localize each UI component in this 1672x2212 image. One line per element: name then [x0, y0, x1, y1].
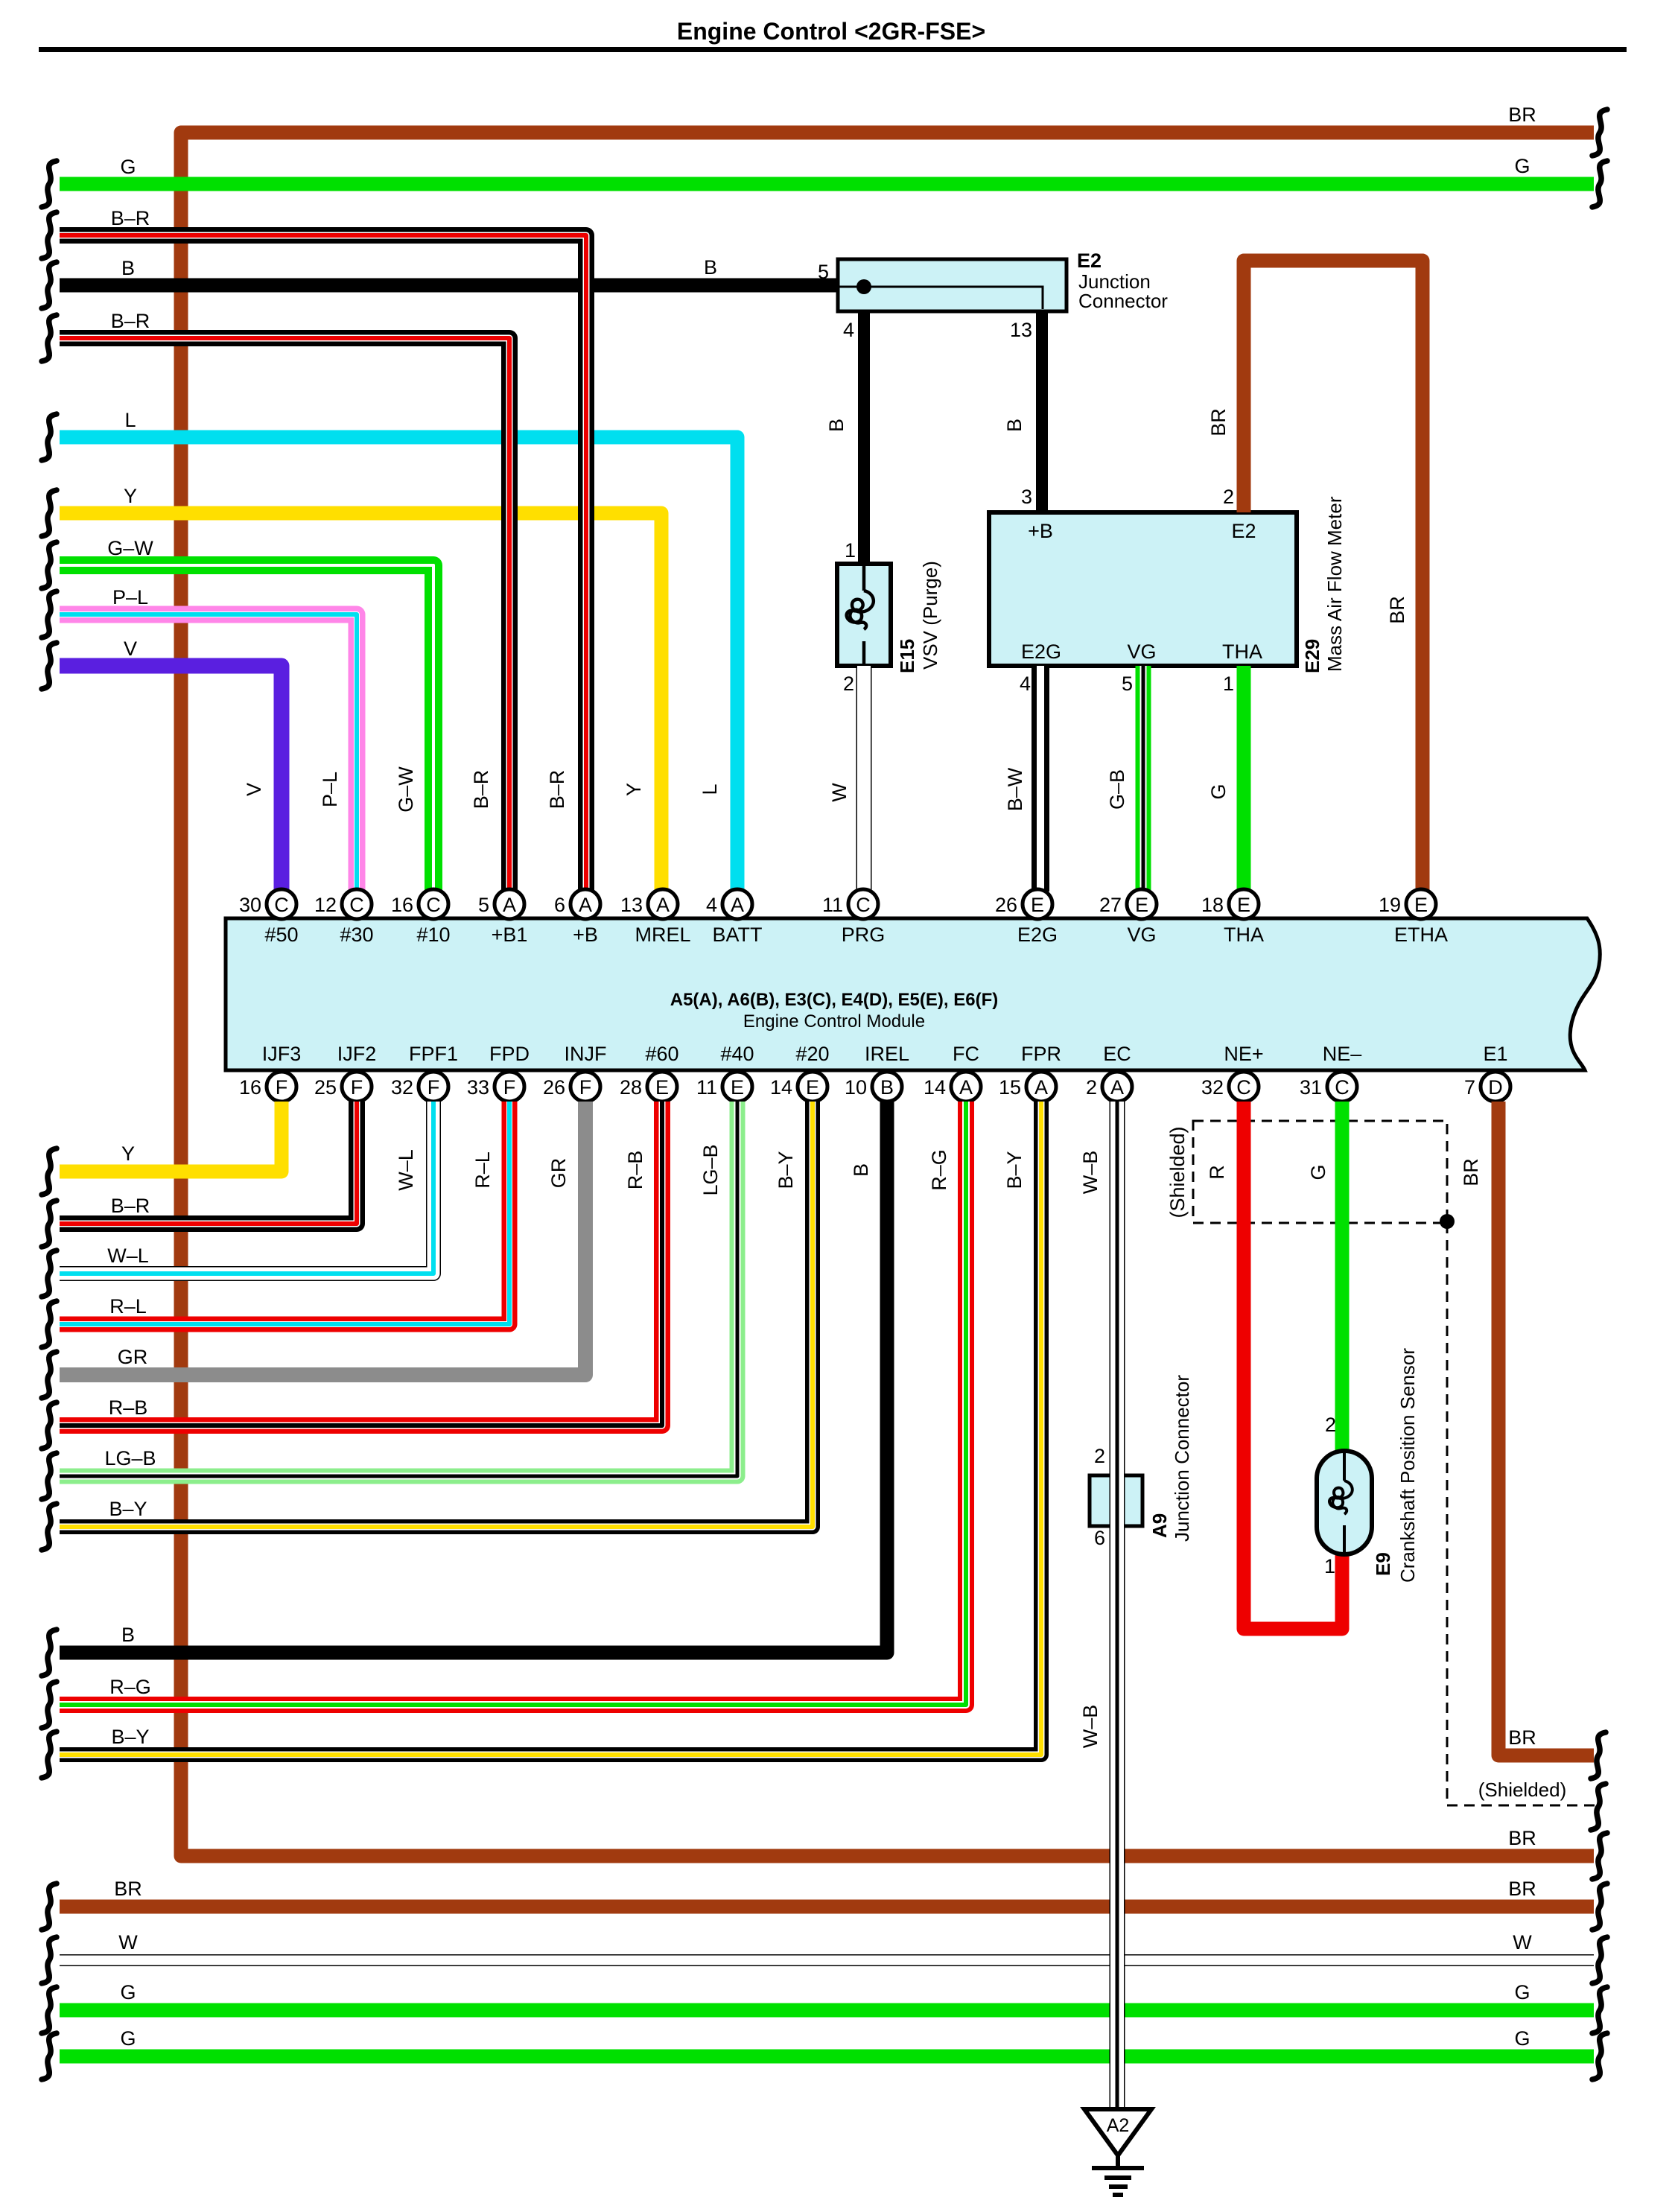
- connector squiggle P-L row: [42, 591, 57, 638]
- svg-text:#20: #20: [795, 1043, 829, 1065]
- svg-text:(Shielded): (Shielded): [1478, 1779, 1567, 1801]
- ECM top pin 27E VG: [1127, 889, 1157, 919]
- ECM bottom pin 14A FC: [951, 1072, 981, 1102]
- svg-text:+B1: +B1: [492, 924, 528, 946]
- svg-text:28: 28: [620, 1076, 642, 1099]
- connector squiggle B-R lower: [42, 1201, 57, 1247]
- wire Y to ECM MREL (13A): [60, 513, 661, 892]
- connector squiggle G left: [42, 161, 57, 207]
- svg-text:BR: BR: [1508, 1827, 1536, 1849]
- ECM bottom pin 2A EC: [1102, 1072, 1132, 1102]
- svg-text:4: 4: [1020, 673, 1031, 695]
- ECM bottom pin 28E #60: [647, 1072, 677, 1102]
- wire G-B from E29 VG pin5 to ECM VG (27E): [1136, 666, 1151, 892]
- connector squiggle Y lower: [42, 1148, 57, 1195]
- svg-text:5: 5: [818, 261, 829, 283]
- connector squiggle B-Y lower: [42, 1732, 57, 1778]
- svg-text:F: F: [503, 1076, 516, 1099]
- connector squiggle GR: [42, 1352, 57, 1398]
- connector squiggle G1 left: [42, 1987, 57, 2033]
- svg-text:13: 13: [1010, 319, 1032, 341]
- svg-text:THA: THA: [1222, 641, 1262, 663]
- svg-text:BR: BR: [1386, 596, 1408, 624]
- svg-text:Y: Y: [121, 1142, 135, 1165]
- svg-text:FPR: FPR: [1021, 1043, 1061, 1065]
- svg-text:B: B: [825, 419, 848, 432]
- svg-text:E2G: E2G: [1021, 641, 1061, 663]
- svg-text:31: 31: [1300, 1076, 1322, 1099]
- svg-text:L: L: [699, 784, 721, 795]
- svg-text:VSV (Purge): VSV (Purge): [919, 561, 941, 670]
- connector break squiggle BR top right: [1592, 109, 1607, 156]
- svg-text:B–R: B–R: [111, 1195, 150, 1217]
- svg-text:16: 16: [391, 894, 413, 916]
- engine control module ECM box: [226, 918, 1600, 1070]
- wire B-Y from ECM #20 (14E): [60, 1102, 813, 1527]
- svg-text:2: 2: [1086, 1076, 1097, 1099]
- svg-text:2: 2: [1223, 486, 1234, 508]
- svg-text:P–L: P–L: [112, 586, 148, 608]
- svg-text:BR: BR: [1460, 1158, 1482, 1186]
- svg-text:BR: BR: [1508, 104, 1536, 126]
- svg-text:C: C: [856, 894, 871, 916]
- svg-text:W–L: W–L: [395, 1149, 417, 1191]
- ECM bottom pin 31C NE–: [1327, 1072, 1357, 1102]
- svg-text:A2: A2: [1107, 2115, 1130, 2136]
- svg-text:D: D: [1488, 1076, 1503, 1099]
- svg-text:V: V: [124, 638, 137, 660]
- svg-text:B–Y: B–Y: [1003, 1151, 1026, 1189]
- svg-text:16: 16: [239, 1076, 261, 1099]
- svg-text:25: 25: [314, 1076, 337, 1099]
- svg-text:G: G: [120, 156, 136, 178]
- svg-text:Crankshaft Position Sensor: Crankshaft Position Sensor: [1396, 1348, 1419, 1583]
- wire B-Y from ECM FPR (15A): [60, 1102, 1041, 1755]
- ECM top pin 19E ETHA: [1406, 889, 1436, 919]
- svg-text:#40: #40: [720, 1043, 754, 1065]
- svg-text:A: A: [503, 894, 516, 916]
- connector squiggle G-W row: [42, 542, 57, 588]
- svg-text:B: B: [121, 257, 135, 279]
- svg-text:C: C: [349, 894, 364, 916]
- connector squiggle W left: [42, 1937, 57, 1983]
- svg-text:A: A: [579, 894, 592, 916]
- wire P-L to ECM #30 (12C): [60, 614, 357, 892]
- ECM top pin 18E THA: [1229, 889, 1259, 919]
- svg-text:14: 14: [924, 1076, 946, 1099]
- wire W-B over bottom rows: [1110, 1840, 1125, 2109]
- svg-text:3: 3: [1021, 486, 1032, 508]
- E15 coil symbol: [847, 566, 874, 664]
- wire Y from ECM IJF3 (16F): [60, 1102, 282, 1172]
- wire G from E29 THA pin1 to ECM THA (18E): [1237, 666, 1251, 892]
- svg-text:19: 19: [1379, 894, 1401, 916]
- svg-text:B: B: [121, 1624, 135, 1646]
- svg-text:15: 15: [999, 1076, 1021, 1099]
- svg-text:E9: E9: [1372, 1552, 1394, 1576]
- svg-text:2: 2: [1325, 1414, 1336, 1436]
- E9 coil symbol: [1329, 1453, 1352, 1552]
- ECM top pin 12C #30: [342, 889, 372, 919]
- connector squiggle B-R row2: [42, 315, 57, 361]
- junction dot shield corner: [1440, 1214, 1455, 1229]
- svg-text:Junction Connector: Junction Connector: [1171, 1375, 1193, 1542]
- wire B from E2 pin13 to E29 +B pin3: [1036, 311, 1048, 512]
- svg-text:E: E: [1031, 894, 1044, 916]
- svg-text:VG: VG: [1127, 641, 1156, 663]
- connector squiggle LG-B: [42, 1453, 57, 1499]
- svg-text:A9: A9: [1148, 1513, 1171, 1538]
- svg-text:32: 32: [391, 1076, 413, 1099]
- svg-text:14: 14: [770, 1076, 792, 1099]
- svg-text:27: 27: [1099, 894, 1122, 916]
- svg-text:G: G: [1514, 1981, 1530, 2003]
- svg-text:A: A: [1110, 1076, 1124, 1099]
- svg-text:W–L: W–L: [107, 1245, 149, 1267]
- wire GR from ECM INJF (26F): [60, 1102, 585, 1375]
- ECM top pin 13A MREL: [648, 889, 678, 919]
- svg-text:B–R: B–R: [111, 207, 150, 229]
- wire BR from E29 E2 pin2 over to ECM ETHA (19E): [1244, 261, 1423, 892]
- svg-text:A: A: [1034, 1076, 1048, 1099]
- svg-text:A: A: [959, 1076, 973, 1099]
- svg-text:1: 1: [845, 539, 856, 562]
- svg-text:11: 11: [822, 894, 843, 916]
- svg-text:FPD: FPD: [489, 1043, 530, 1065]
- svg-text:F: F: [427, 1076, 440, 1099]
- svg-text:R–L: R–L: [471, 1151, 494, 1189]
- svg-text:BR: BR: [1508, 1726, 1536, 1749]
- svg-text:BR: BR: [1508, 1878, 1536, 1900]
- junction connector A9 box: [1090, 1475, 1142, 1526]
- wire B-R to ECM +B (6A): [60, 235, 586, 892]
- wire G (top row): [60, 177, 1594, 191]
- ECM bottom pin 7D E1: [1481, 1072, 1510, 1102]
- connector squiggle R-G: [42, 1682, 57, 1728]
- ECM bottom pin 26F INJF: [570, 1072, 600, 1102]
- ECM top pin 5A +B1: [495, 889, 524, 919]
- connector squiggle E1 BR: [1591, 1732, 1606, 1779]
- ECM bottom pin 16F IJF3: [267, 1072, 296, 1102]
- connector squiggle B-Y: [42, 1504, 57, 1550]
- svg-text:1: 1: [1223, 673, 1234, 695]
- svg-text:4: 4: [843, 319, 854, 341]
- connector squiggle BR2 left: [42, 1884, 57, 1930]
- wire B-R to ECM +B1 (5A): [60, 338, 509, 892]
- svg-text:30: 30: [239, 894, 261, 916]
- ECM top pin 30C #50: [267, 889, 296, 919]
- ECM top pin 26E E2G: [1023, 889, 1052, 919]
- svg-text:B–W: B–W: [1004, 767, 1026, 811]
- svg-text:Y: Y: [623, 783, 645, 796]
- svg-text:R–G: R–G: [109, 1676, 151, 1698]
- svg-text:B: B: [704, 256, 717, 279]
- wire R from ECM NE+ (32C) to E9 pin1: [1244, 1102, 1342, 1629]
- svg-text:R–L: R–L: [109, 1295, 147, 1318]
- svg-text:THA: THA: [1224, 924, 1264, 946]
- junction connector E2 box: [838, 259, 1067, 311]
- svg-text:V: V: [243, 783, 265, 796]
- ECM top pin 16C #10: [419, 889, 448, 919]
- wire G bottom row 2: [60, 2050, 1594, 2064]
- svg-text:W: W: [828, 783, 851, 802]
- svg-text:G: G: [120, 2027, 136, 2050]
- wire G bottom row 1: [60, 2003, 1594, 2018]
- title rule: [39, 47, 1627, 52]
- svg-text:B–R: B–R: [546, 770, 568, 810]
- svg-text:#30: #30: [340, 924, 373, 946]
- connector squiggle W right: [1592, 1937, 1607, 1983]
- ECM top pin 11C PRG: [848, 889, 878, 919]
- svg-text:26: 26: [543, 1076, 565, 1099]
- svg-text:E2G: E2G: [1017, 924, 1058, 946]
- wire LG-B from ECM #40 (11E): [60, 1102, 737, 1476]
- svg-text:12: 12: [314, 894, 337, 916]
- wire W-B from ECM EC (2A) to ground A2: [1110, 1102, 1125, 2109]
- connector squiggle B lower: [42, 1630, 57, 1676]
- svg-text:G: G: [120, 1981, 136, 2003]
- svg-text:E29: E29: [1301, 639, 1323, 673]
- svg-text:5: 5: [1122, 673, 1133, 695]
- svg-text:B–Y: B–Y: [775, 1151, 797, 1189]
- svg-text:ETHA: ETHA: [1394, 924, 1448, 946]
- connector squiggle B-R row1: [42, 212, 57, 258]
- wire B-W from E29 E2G pin4 to ECM E2G (26E): [1032, 666, 1049, 892]
- svg-text:FC: FC: [953, 1043, 979, 1065]
- svg-text:BR: BR: [114, 1878, 142, 1900]
- connector squiggle R-L: [42, 1301, 57, 1347]
- svg-text:FPF1: FPF1: [409, 1043, 458, 1065]
- wire L to ECM BATT (4A): [60, 437, 737, 892]
- svg-text:G–B: G–B: [1106, 769, 1128, 810]
- ECM bottom pin 32F FPF1: [419, 1072, 448, 1102]
- svg-text:MREL: MREL: [635, 924, 690, 946]
- svg-text:B–Y: B–Y: [111, 1726, 149, 1748]
- svg-text:B–Y: B–Y: [109, 1498, 147, 1520]
- wire R-G from ECM FC (14A): [60, 1102, 966, 1705]
- svg-text:2: 2: [843, 673, 854, 695]
- ground A2 stem and bars: [1092, 2155, 1144, 2195]
- svg-text:+B: +B: [1028, 520, 1053, 542]
- svg-text:B: B: [850, 1163, 872, 1177]
- svg-text:G: G: [1207, 784, 1230, 799]
- svg-text:NE–: NE–: [1323, 1043, 1362, 1065]
- svg-text:10: 10: [845, 1076, 867, 1099]
- svg-text:BATT: BATT: [713, 924, 763, 946]
- svg-text:C: C: [1236, 1076, 1251, 1099]
- connector squiggle V row: [42, 643, 57, 689]
- connector squiggle shield drain: [1591, 1784, 1606, 1830]
- ECM bottom pin 15A FPR: [1026, 1072, 1056, 1102]
- svg-text:5: 5: [478, 894, 489, 916]
- svg-text:C: C: [274, 894, 289, 916]
- svg-text:A5(A), A6(B), E3(C), E4(D), E5: A5(A), A6(B), E3(C), E4(D), E5(E), E6(F): [670, 990, 998, 1010]
- svg-text:A: A: [731, 894, 744, 916]
- svg-text:BR: BR: [1207, 408, 1230, 436]
- svg-text:LG–B: LG–B: [104, 1447, 156, 1469]
- svg-text:1: 1: [1324, 1555, 1335, 1577]
- svg-text:6: 6: [1094, 1527, 1105, 1549]
- svg-text:F: F: [351, 1076, 363, 1099]
- svg-text:R–B: R–B: [624, 1151, 646, 1190]
- solenoid valve E15 VSV(Purge) box: [837, 564, 891, 666]
- svg-text:GR: GR: [547, 1158, 570, 1189]
- svg-text:E1: E1: [1483, 1043, 1507, 1065]
- svg-text:R–G: R–G: [928, 1149, 950, 1191]
- svg-text:W: W: [1513, 1931, 1532, 1954]
- wire B to E2 junction connector: [60, 279, 838, 293]
- wire W from E15 pin2 to ECM PRG (11C): [856, 666, 872, 892]
- svg-text:E15: E15: [896, 639, 918, 673]
- svg-text:Mass Air Flow Meter: Mass Air Flow Meter: [1323, 496, 1346, 672]
- ECM bottom pin 33F FPD: [495, 1072, 524, 1102]
- svg-text:INJF: INJF: [565, 1043, 607, 1065]
- connector squiggle G2 right: [1592, 2033, 1607, 2079]
- connector squiggle BR2 right: [1592, 1884, 1607, 1930]
- svg-text:VG: VG: [1127, 924, 1156, 946]
- svg-text:E2: E2: [1231, 520, 1256, 542]
- junction dot E2 pin5/pin4 node: [856, 279, 871, 294]
- svg-text:F: F: [276, 1076, 288, 1099]
- wire G from ECM NE- (31C) to E9 pin2: [1335, 1102, 1350, 1451]
- svg-text:IJF3: IJF3: [262, 1043, 302, 1065]
- connector squiggle G2 left: [42, 2033, 57, 2079]
- wire BR main loop (top row, left vertical, bottom row): [181, 133, 1594, 1856]
- svg-text:B–R: B–R: [111, 310, 150, 332]
- ECM top pin 6A +B: [570, 889, 600, 919]
- wire V to ECM #50 (30C): [60, 666, 282, 892]
- shield dashed box (NE+/NE-): [1193, 1121, 1447, 1223]
- svg-text:PRG: PRG: [842, 924, 886, 946]
- wire R-L from ECM FPD (33F): [60, 1102, 509, 1324]
- svg-text:IJF2: IJF2: [337, 1043, 377, 1065]
- svg-text:E: E: [1414, 894, 1428, 916]
- svg-text:C: C: [1335, 1076, 1350, 1099]
- connector squiggle G1 right: [1592, 1987, 1607, 2033]
- svg-text:+B: +B: [573, 924, 598, 946]
- svg-text:(Shielded): (Shielded): [1166, 1126, 1189, 1218]
- svg-text:4: 4: [706, 894, 717, 916]
- mass air flow meter E29 box: [989, 512, 1297, 666]
- ECM bottom pin 14E #20: [798, 1072, 827, 1102]
- svg-text:2: 2: [1094, 1445, 1105, 1467]
- crankshaft position sensor E9 body: [1317, 1451, 1372, 1554]
- wire B-R from ECM IJF2 (25F): [60, 1102, 357, 1224]
- svg-text:G: G: [1514, 2027, 1530, 2050]
- svg-text:G–W: G–W: [107, 537, 153, 559]
- ECM top pin 4A BATT: [722, 889, 752, 919]
- svg-text:Connector: Connector: [1078, 290, 1168, 312]
- svg-text:11: 11: [696, 1076, 717, 1099]
- svg-text:18: 18: [1201, 894, 1224, 916]
- svg-text:E2: E2: [1077, 250, 1102, 272]
- svg-text:Engine Control Module: Engine Control Module: [743, 1011, 925, 1032]
- svg-text:L: L: [124, 409, 136, 431]
- connector squiggle R-B: [42, 1402, 57, 1449]
- svg-text:#50: #50: [264, 924, 298, 946]
- svg-text:E: E: [655, 1076, 669, 1099]
- svg-text:W–B: W–B: [1079, 1705, 1102, 1749]
- svg-text:GR: GR: [118, 1346, 148, 1368]
- svg-text:#10: #10: [416, 924, 450, 946]
- svg-text:EC: EC: [1103, 1043, 1131, 1065]
- wire G-W to ECM #10 (16C): [60, 565, 433, 892]
- svg-text:A: A: [656, 894, 670, 916]
- svg-text:G: G: [1514, 155, 1530, 177]
- svg-text:#60: #60: [645, 1043, 678, 1065]
- svg-text:B–R: B–R: [470, 770, 492, 810]
- wire BR from ECM E1 (7D): [1498, 1102, 1594, 1755]
- svg-text:B: B: [880, 1076, 894, 1099]
- svg-text:E: E: [731, 1076, 744, 1099]
- ECM bottom pin 25F IJF2: [342, 1072, 372, 1102]
- svg-text:Engine Control <2GR-FSE>: Engine Control <2GR-FSE>: [677, 18, 985, 45]
- wire R-B from ECM #60 (28E): [60, 1102, 662, 1426]
- wire BR bottom row 2: [60, 1900, 1594, 1914]
- svg-text:26: 26: [995, 894, 1017, 916]
- svg-text:B: B: [1003, 419, 1026, 432]
- svg-text:G: G: [1307, 1164, 1329, 1180]
- ECM bottom pin 11E #40: [722, 1072, 752, 1102]
- svg-text:NE+: NE+: [1224, 1043, 1263, 1065]
- connector squiggle Y row: [42, 490, 57, 536]
- connector break squiggle BR bottom right: [1592, 1833, 1607, 1879]
- ground A2 triangle: [1084, 2109, 1151, 2155]
- svg-text:7: 7: [1464, 1076, 1475, 1099]
- svg-text:13: 13: [620, 894, 643, 916]
- wire W-L from ECM FPF1 (32F): [60, 1102, 433, 1274]
- svg-text:W: W: [118, 1931, 138, 1954]
- wire B from E2 pin4 to E15 pin1: [858, 311, 870, 564]
- connector squiggle G right: [1592, 161, 1607, 207]
- shield dashed drain vertical: [1447, 1223, 1595, 1805]
- svg-text:6: 6: [554, 894, 565, 916]
- svg-text:W–B: W–B: [1079, 1151, 1102, 1195]
- svg-text:Y: Y: [124, 485, 137, 507]
- svg-text:F: F: [579, 1076, 592, 1099]
- ECM bottom pin 32C NE+: [1229, 1072, 1259, 1102]
- wire B from ECM IREL (10B): [60, 1102, 887, 1653]
- svg-text:E: E: [1237, 894, 1250, 916]
- E2 internal bus bar: [838, 287, 1043, 309]
- svg-text:E: E: [806, 1076, 819, 1099]
- connector squiggle W-L: [42, 1250, 57, 1297]
- svg-text:R: R: [1206, 1165, 1228, 1180]
- wire W bottom row: [60, 1954, 1594, 1966]
- svg-text:32: 32: [1201, 1076, 1224, 1099]
- svg-text:LG–B: LG–B: [699, 1144, 722, 1195]
- svg-text:P–L: P–L: [319, 772, 341, 807]
- svg-text:E: E: [1135, 894, 1148, 916]
- connector squiggle L row: [42, 414, 57, 460]
- svg-text:33: 33: [467, 1076, 489, 1099]
- connector squiggle B row: [42, 262, 57, 308]
- svg-text:R–B: R–B: [109, 1396, 148, 1419]
- svg-text:C: C: [426, 894, 441, 916]
- ECM bottom pin 10B IREL: [872, 1072, 902, 1102]
- svg-text:G–W: G–W: [395, 766, 417, 813]
- svg-text:IREL: IREL: [865, 1043, 909, 1065]
